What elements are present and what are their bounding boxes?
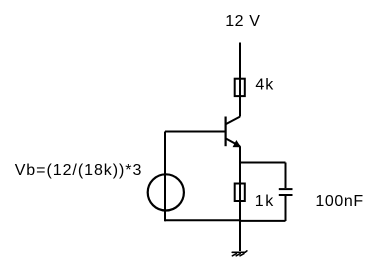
wire emitter to capacitor xyxy=(240,162,286,164)
wire bottom left xyxy=(165,219,240,221)
svg-text:1k: 1k xyxy=(255,193,275,210)
ground xyxy=(232,251,247,256)
transistor Q1 xyxy=(226,117,241,147)
wire left vertical xyxy=(164,132,166,222)
wire base xyxy=(165,131,226,133)
capacitor C1 xyxy=(279,163,293,222)
wire bottom right xyxy=(240,220,286,222)
svg-text:4k: 4k xyxy=(255,77,274,94)
svg-text:100nF: 100nF xyxy=(315,193,363,210)
voltage source V1 xyxy=(148,174,184,210)
resistor R2 1k xyxy=(235,184,245,202)
svg-text:12 V: 12 V xyxy=(225,13,260,30)
svg-text:Vb=(12/(18k))*3: Vb=(12/(18k))*3 xyxy=(15,162,143,179)
wire emitter vertical xyxy=(239,146,241,251)
wire Vcc to collector xyxy=(239,43,241,117)
resistor R1 4k xyxy=(235,79,245,96)
